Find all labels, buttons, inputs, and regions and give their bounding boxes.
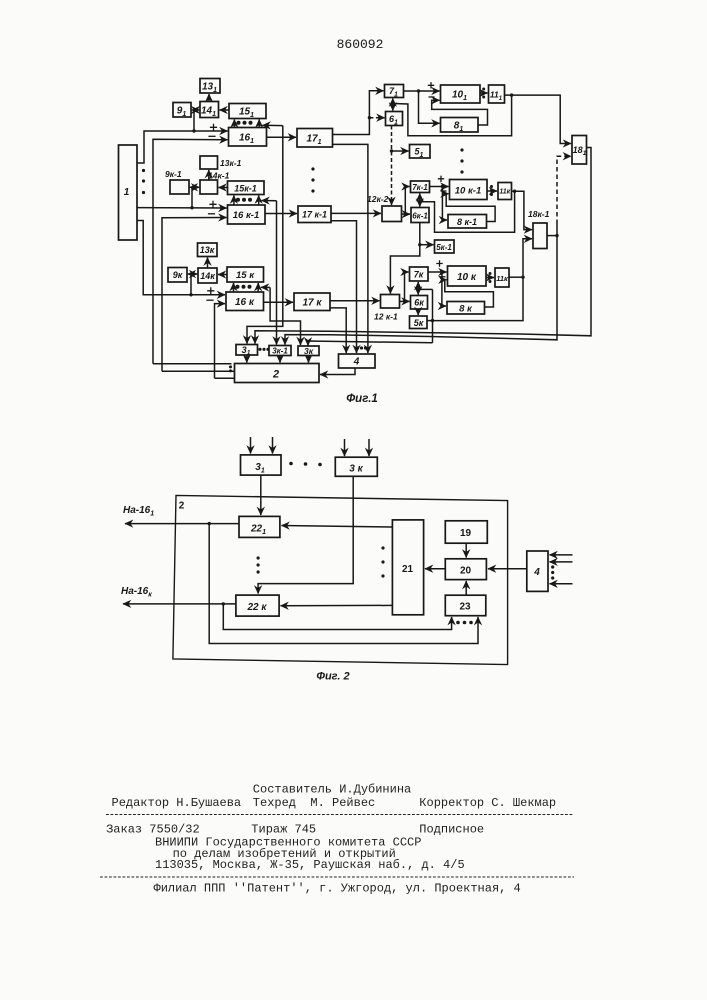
junction on 17-1/7-1 wire [368,116,371,119]
plus sign 10-1 [428,82,434,88]
wire 3k to block 2 [308,356,310,363]
fig2 dots between 3-1 and 3k [289,462,322,467]
plus sign 10k [436,260,442,266]
dots between 10k-1 and 11k-1 [490,185,493,196]
wire 14-1 to 13-1 [208,94,210,102]
wire line C to 3k right input [308,341,433,346]
junction on plus wire 16k-1 [190,206,193,209]
wire 11k up to 18k-1 lower input [523,239,532,277]
svg-text:Составитель И.Дубинина: Составитель И.Дубинина [253,783,411,797]
junction on 7-1/10-1 wire [417,89,420,92]
fig2 wire 20 to 21 [425,568,445,570]
fig2 block 23 [445,595,486,616]
block 9-1 [173,103,191,118]
dots right of block 1 [142,169,145,194]
svg-text:2: 2 [272,369,279,381]
svg-text:16 к-1: 16 к-1 [233,210,259,221]
wire k feedback vertical [432,289,434,342]
wire k feedback to 7k/6k junction [418,288,432,290]
wire 11k feedback down to junction [433,277,524,320]
wire bus up dashed to 18-1 lower input [557,156,571,224]
wire 6-1 dashed down [391,126,393,151]
svg-text:3 к: 3 к [349,464,363,475]
block 3k [298,346,319,356]
wire 9-1 to 14-1 double arrow [192,109,199,111]
wire 16k-1 to 17k-1 [265,213,297,215]
fig2 dots between 23 feedback arrows [456,621,473,625]
block 13-1 [200,79,220,94]
fig2 block 3-1 [241,455,282,475]
fig2 block 2 frame [173,495,508,664]
block 12k-2 (empty box) [382,206,402,222]
wire junction stub to 5k [428,320,433,322]
svg-text:8 к: 8 к [459,304,473,315]
svg-text:3к-1: 3к-1 [272,347,288,356]
plus sign 10k-1 [438,176,444,182]
minus sign 10-1 [429,96,435,98]
dots between 17-1 and 17k-1 column [311,167,314,192]
block 3k-1 [269,346,291,356]
svg-text:2: 2 [179,501,185,512]
wire left bus k-1 to block 2 middle [162,370,234,372]
wire junction up to 9k/14k link [190,274,192,295]
minus sign 10k [440,276,446,278]
block 17-1 [297,129,333,148]
wire feedback into 15k-1/16k-1 junction [262,200,277,202]
wire box1 to plus input of 16k-1 [137,207,227,209]
wire dashed 6-1 down to 12k-2 [391,152,393,206]
svg-text:20: 20 [460,566,472,577]
wire junction up to 9k-1/14k-1 link [191,187,193,207]
wire 18k-1 output to vertical bus [547,235,557,237]
block 3-1 [236,345,258,356]
dots between 15k and 16k [236,285,252,289]
wire junction down to 8-1 [419,91,440,123]
wire 9k-1 to 14k-1 double arrow [190,186,199,188]
plus sign 16k-1 [209,201,216,208]
fig2 wire 22k output to Na-16k [123,603,236,605]
junction on 7k-1/6k-1 link [418,200,421,203]
fig2 wire 4 to 20 [488,568,527,570]
plus sign 16k [207,287,214,294]
junction on 6k-1 down wire [418,243,421,246]
svg-text:16 к: 16 к [235,297,255,308]
wire 7-1 to 10-1 plus [404,90,440,92]
svg-text:7к-1: 7к-1 [412,183,428,192]
block 4 fig1 [339,354,376,368]
svg-text:14к: 14к [200,271,215,281]
dots between 10k and 11k [489,272,492,283]
block 7k-1 [411,181,430,193]
wire 17-1 down to block 4 [333,144,368,353]
wire 15-1/16-1 link right up [258,120,260,128]
svg-text:15к-1: 15к-1 [234,184,257,194]
block 13k-1 (empty box, label right) [200,156,218,169]
svg-text:1: 1 [124,187,130,198]
junction 9k-1/14k-1 [192,186,195,189]
fig2 block 4 [527,551,548,591]
svg-text:Фиг.1: Фиг.1 [346,393,378,405]
wire 17k to 12k-1 [330,300,380,302]
svg-text:19: 19 [460,528,472,539]
wire bus from 15k/16k junction down to 3k left [270,288,300,346]
svg-text:3к: 3к [304,346,314,356]
fig2 dots right of 4 [551,565,554,579]
svg-text:22 к: 22 к [247,602,268,613]
block 5-1 [410,145,431,159]
junction on 7-1/6-1 link [391,102,394,105]
wire junction up to 7k-1 [405,187,409,215]
wire bus solid below 18k-1 level [556,224,558,236]
svg-text:21: 21 [402,564,414,575]
fig2 block 3k [335,457,377,476]
wire 11k output [509,276,523,278]
block 10-1 [441,85,481,103]
junction on 11-1 output [510,93,513,96]
fig2 input stubs into 4 [550,554,573,556]
dots between 10-1 and 11-1 [482,88,485,99]
dots between 15-1 and 16-1 [237,121,253,125]
wire box1 stub to left bus k [137,221,225,295]
plus sign 16-1 [210,124,217,131]
fig2 block 19 [445,521,487,543]
wire junction up to 7k [405,272,409,301]
wire 15-1 to 14-1 [220,109,230,111]
fig2 wire 3k down to 22k [258,476,353,593]
wire 15k-1/16k-1 link left [233,196,235,206]
svg-text:14к-1: 14к-1 [208,171,230,181]
wire left bus k to block 2 lower [215,377,235,379]
wire minus bus to 16k (from block 2) [215,304,226,379]
junction on 11k-1 output [513,190,516,193]
fig2 junction on 22k output [222,602,225,605]
junction on plus wire 16k [189,293,192,296]
block 1 (input register, tall box) [119,145,138,240]
wire 11-1 to 18-1 upper input [505,95,572,143]
wire 8k-1 output loop to 10k-1 minus [446,194,495,222]
footer dashed rule 2 [100,876,574,878]
wire 15k/16k link left [233,283,235,292]
fig2 block 20 [445,559,486,580]
fig2 input arrows into 3k [344,439,346,456]
dots above block 4 [356,346,367,349]
footer dashed rule 1 [106,814,574,816]
minus sign 16k-1 [208,213,215,215]
wire 15k/16k link right [257,283,259,292]
fig2 wire 21 to 22-1 [282,526,393,528]
svg-text:113035, Москва, Ж-35, Раушская: 113035, Москва, Ж-35, Раушская наб., д. … [155,858,465,872]
svg-text:8 к-1: 8 к-1 [457,217,477,227]
minus sign 10k-1 [441,190,447,192]
block 16k-1 [228,205,266,224]
block 9k-1 (empty box) [170,180,189,194]
wire 10k-1 to 11k-1 [487,190,497,192]
fig2 wire 22-1 feedback to 23 [209,524,478,644]
junction on 6-1 down wire [390,149,393,152]
svg-text:7к: 7к [414,270,424,280]
wire 17k-1 to 12k-2 [331,212,381,214]
minus sign 16k [206,299,213,301]
block 17k [294,293,330,311]
wire junction to 5-1 [392,150,409,152]
block 2 fig1 [235,364,320,383]
wire 7k-1/6k-1 double arrow [419,194,421,207]
block 15k [227,267,264,282]
block 14k [198,268,217,283]
wire 15k-1/16k-1 link right [258,196,260,206]
block 13k [198,243,218,257]
block 6k-1 [411,208,429,223]
wire 8k output loop to 10k minus [445,280,494,307]
svg-text:860092: 860092 [337,37,384,52]
svg-text:12 к-1: 12 к-1 [374,312,398,322]
wire 17-1 up to 7-1 [333,91,384,135]
junction 9k/14k [191,273,194,276]
fig2 block 22-1 [239,516,280,537]
wire minus bus to 16k-1 (from block 2) [162,218,227,372]
wire 10k to 11k [486,277,494,279]
fig2 input arrows into 3-1 [250,437,252,454]
svg-text:6к: 6к [414,298,424,308]
svg-text:Филиал ППП ''Патент'', г. Ужго: Филиал ППП ''Патент'', г. Ужгород, ул. П… [154,882,521,896]
junction on 7k/10k wire [440,270,443,273]
dots between 15k-1 and 16k-1 [236,198,252,202]
wire bus down from 18k-1 to 3k-1 right input [285,236,557,345]
block 8k [447,302,485,315]
svg-text:15 к: 15 к [236,270,255,281]
svg-text:10 к: 10 к [457,272,477,283]
svg-text:Корректор С. Шекмар: Корректор С. Шекмар [419,796,556,810]
block 6-1 [386,112,403,126]
block 18k-1 (empty box) [533,223,547,249]
junction 18k-1 output [555,234,558,237]
svg-text:5к-1: 5к-1 [436,243,452,252]
junction on k feedback at 5k [431,319,434,322]
wire junction to 5k-1 [420,244,434,246]
fig2 wire 22k feedback to 23 [223,604,451,630]
junction on 7k/6k link [417,288,420,291]
wire 16-1 to 17-1 [267,136,297,138]
svg-text:17 к: 17 к [303,298,323,309]
svg-text:13к-1: 13к-1 [220,158,242,168]
svg-text:12к-2: 12к-2 [367,194,389,204]
wire 18-1 output down right edge to 3-1 right input [255,148,591,344]
svg-text:Редактор Н.Бушаева: Редактор Н.Бушаева [112,796,242,810]
block 15-1 [229,104,266,119]
wire 6k-1 down [419,223,421,245]
fig2 wire 21 to 22k [281,604,393,606]
svg-text:На-16к: На-16к [121,586,152,599]
junction after 12k-2 [404,212,407,215]
fig2 wire 23 to 20 [465,581,467,595]
wire 14k-1 to 13k-1 [208,170,210,180]
svg-text:Фиг. 2: Фиг. 2 [316,671,349,683]
wire 17k-1 down to block 4 [331,221,357,353]
wire 8-1 output loop to 10-1 minus [432,100,488,125]
svg-text:23: 23 [459,602,471,613]
fig2 dots left of 21 [381,546,384,577]
wire 6k-1 down to 12k-1 [390,245,419,294]
wire junction down to 8k [442,272,446,306]
block 11k-1 [498,183,512,200]
block 9k [168,268,187,283]
block 7k [410,267,429,281]
block 16k [226,292,264,311]
svg-text:4: 4 [533,567,540,578]
fig2 wire 22-1 output to Na-16-1 [125,523,239,525]
block 6k [411,296,428,310]
block 15k-1 [228,181,265,195]
wire 10-1 to 11-1 [480,92,488,94]
wire junction down to 8k-1 [442,187,447,221]
wire left bus bottom to block 2 upper [153,363,232,365]
wire minus bus to 16-1 (from block 2 via left bus) [153,139,228,363]
junction on 11k output [521,276,524,279]
wire feedback into 15-1/16-1 junction [263,124,283,126]
block 17k-1 [298,206,331,223]
svg-text:Тираж 745: Тираж 745 [251,823,316,837]
wire 7k-1 to 10k-1 plus [430,186,449,188]
wire 7k to 10k plus [428,271,447,273]
block 5k-1 [435,240,455,253]
fig2 block 22k [236,595,279,616]
svg-text:9к: 9к [173,270,183,280]
wire 12k-2 to 6k-1 [402,213,411,215]
minus sign 16-1 [208,135,215,137]
dots between 3-1 and 3k-1 [258,348,269,351]
svg-text:13к: 13к [200,245,215,255]
svg-text:11к: 11к [499,189,510,196]
wire 11-1 feedback to 7-1/6-1 junction [393,95,512,136]
block 8-1 [441,118,479,133]
junction on plus wire 16-1 [192,129,195,132]
block 12k-1 (empty box) [381,295,400,309]
wire 3k-1 to block 2 [279,356,281,363]
block 18-1 [572,136,587,165]
wire box1 to plus input of 16-1 [137,131,228,163]
wire 16k to 17k [264,301,294,303]
block 5k [410,316,428,329]
svg-text:Заказ 7550/32: Заказ 7550/32 [106,823,200,837]
block 10k-1 [450,180,488,200]
svg-text:10 к-1: 10 к-1 [455,186,481,197]
junction 9-1/14-1 [193,109,196,112]
svg-text:Техред М. Рейвес: Техред М. Рейвес [253,796,375,810]
block 14k-1 (empty box) [200,180,218,194]
svg-text:18к-1: 18к-1 [528,209,550,219]
svg-text:11к: 11к [496,274,509,283]
wire 11k-1 to 18k-1 upper input [512,191,533,229]
dots column right mid (between group1 and k-1) [460,148,463,173]
fig2 block 21 [392,520,423,615]
wire 15k-1 to 14k-1 [219,187,228,189]
svg-text:9к-1: 9к-1 [165,169,182,179]
wire dashed junction to 6-1 [369,117,384,119]
wire 7k/6k double arrow [417,282,419,295]
fig2 junction on 22-1 output [208,522,211,525]
wire bus from 15-1/16-1 junction down to 3-1 left [247,126,283,344]
svg-text:Подписное: Подписное [419,823,484,837]
wire 6k down to 5k [417,309,419,315]
fig2 wire 19 to 20 [465,543,467,557]
wire 17k down to block 4 [330,308,346,353]
fig2 wire 3-1 down to 22-1 [260,475,262,515]
block 14-1 [200,102,219,118]
wire 15k to 14k [218,274,227,276]
block 8k-1 [448,215,487,229]
block 10k [448,266,487,286]
svg-text:4: 4 [353,357,360,368]
junction on 7k-1/10k-1 wire [441,185,444,188]
wire bus from 15k-1/16k-1 junction down to 3k-1 left [276,201,278,345]
block 11-1 [489,85,505,103]
dots left of block 2 [229,365,232,372]
wire feedback into 15k/16k junction [261,286,270,288]
wire 14k to 13k [207,258,209,269]
svg-text:17 к-1: 17 к-1 [302,210,327,220]
svg-text:6к-1: 6к-1 [412,212,428,221]
fig2 dots below 22-1 [257,556,260,573]
junction after 12k-1 [403,300,406,303]
wire 11k-1 feedback to 7k-1/6k-1 junction [420,191,515,232]
wire 3-1 to block 2 [246,355,248,363]
wire 7-1/6-1 double arrow [392,99,394,111]
wire block 4 to block 2 [320,368,355,375]
block 11k [495,268,509,287]
svg-text:5к: 5к [414,318,424,328]
wire 15-1/16-1 link left [233,120,235,128]
wire 9k to 14k double arrow [188,273,197,275]
wire junction up to 9-1/14-1 link [193,110,195,131]
block 7-1 [385,85,404,98]
svg-text:На-161: На-161 [123,505,154,518]
block 16-1 [229,128,267,147]
wire 12k-1 to 6k [400,300,410,302]
